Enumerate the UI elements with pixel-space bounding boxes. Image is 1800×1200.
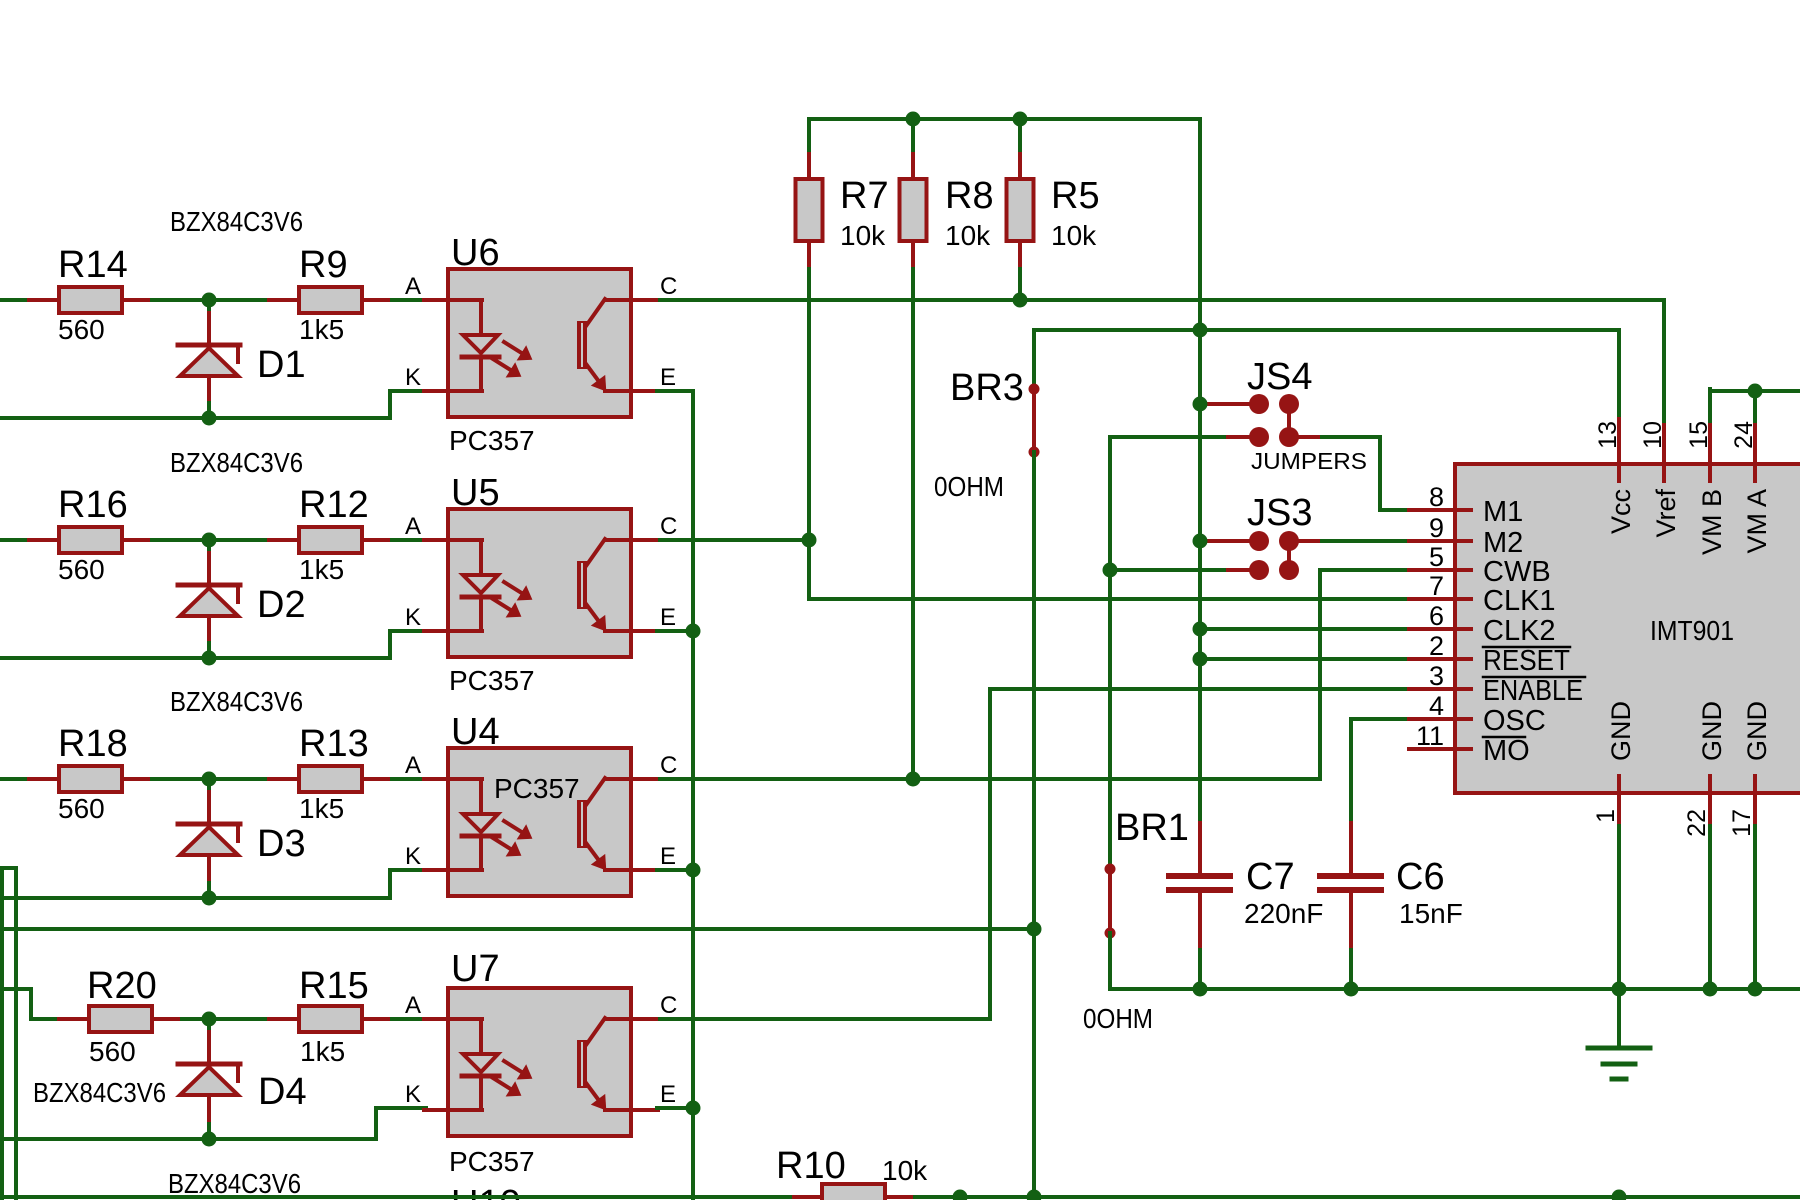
node junction R5 top: [1013, 112, 1028, 127]
pin 9 stub of IMT901: [1409, 539, 1471, 543]
label R9: [299, 244, 348, 286]
svg-text:0OHM: 0OHM: [1083, 1003, 1153, 1034]
wire JS3 top-left stub: [1207, 539, 1252, 543]
label 10k value of R5: [1051, 220, 1097, 251]
svg-text:BZX84C3V6: BZX84C3V6: [170, 206, 303, 237]
wire BR3 bottom: [1032, 452, 1036, 1197]
wire VM row: [1710, 389, 1800, 393]
svg-text:JS3: JS3: [1247, 492, 1312, 534]
wire R7 top: [807, 119, 811, 150]
node junction D2 anode: [202, 533, 217, 548]
svg-text:560: 560: [89, 1036, 136, 1067]
wire CLK2 net: [1200, 627, 1410, 631]
svg-text:PC357: PC357: [449, 425, 535, 456]
svg-text:U5: U5: [451, 472, 500, 514]
label R20: [87, 965, 157, 1007]
pin name CWB: [1483, 556, 1551, 588]
pin number 24 rotated: [1730, 421, 1758, 449]
label 1k5 value of R9: [299, 314, 344, 345]
wire U5 E to node: [657, 629, 693, 633]
jumper JS4 pads: [1249, 394, 1299, 447]
pin number 5: [1429, 542, 1444, 572]
svg-text:R16: R16: [58, 484, 128, 526]
svg-text:C7: C7: [1246, 856, 1295, 898]
pin 3 stub of IMT901: [1409, 687, 1471, 691]
label D3: [257, 823, 306, 865]
resistor R16: [29, 527, 152, 553]
capacitor C7: [1169, 823, 1230, 989]
label C7: [1246, 856, 1295, 898]
svg-text:A: A: [405, 513, 421, 540]
svg-text:220nF: 220nF: [1244, 898, 1323, 929]
svg-text:BZX84C3V6: BZX84C3V6: [170, 447, 303, 478]
wire M1 net b: [1378, 437, 1382, 510]
pin name ENABLE: [1483, 675, 1583, 707]
wire top Vcc rail: [809, 117, 1200, 121]
svg-text:R7: R7: [840, 175, 889, 217]
svg-text:IMT901: IMT901: [1650, 615, 1734, 646]
svg-text:GND: GND: [1742, 701, 1772, 761]
label R16: [58, 484, 128, 526]
label BZX84C3V6 value of D4: [33, 1077, 166, 1108]
wire Vref stub join: [1662, 415, 1666, 421]
label 560 value of R14: [58, 314, 105, 345]
svg-text:15nF: 15nF: [1399, 898, 1463, 929]
node junction JS3 feed: [1193, 534, 1208, 549]
node junction U4 E: [686, 863, 701, 878]
svg-text:MO: MO: [1483, 735, 1530, 767]
pin number 1 rotated: [1592, 809, 1620, 823]
wire GND pin 1 drop: [1617, 826, 1621, 989]
pin name Vref rotated: [1651, 489, 1681, 538]
svg-text:BZX84C3V6: BZX84C3V6: [168, 1168, 301, 1199]
svg-text:R10: R10: [776, 1145, 846, 1187]
label R18: [58, 723, 128, 765]
node junction bottom a: [953, 1190, 968, 1200]
svg-text:560: 560: [58, 793, 105, 824]
wire row1 bottom net: [0, 416, 390, 420]
pin name VM A rotated: [1742, 489, 1772, 554]
optocoupler U6: [424, 269, 664, 417]
node junction D4 anode: [202, 1132, 217, 1147]
wire BR3 top: [1032, 330, 1036, 389]
svg-text:BR3: BR3: [950, 367, 1024, 409]
label BR1: [1115, 807, 1189, 849]
wire emitter bus vertical: [691, 391, 695, 1200]
pin 6 stub of IMT901: [1409, 627, 1471, 631]
svg-text:R12: R12: [299, 484, 369, 526]
wire R13 to U4 A: [392, 777, 426, 781]
bridge BR1 0 ohm: [1105, 864, 1116, 939]
wire U4 C row: [660, 777, 1320, 781]
node junction C7 bottom: [1193, 982, 1208, 997]
svg-text:U6: U6: [451, 232, 500, 274]
wire Vcc column to pin13: [1617, 330, 1621, 421]
resistor R5: [1007, 148, 1034, 272]
wire branch to R20 b: [29, 989, 33, 1019]
label 1k5 value of R15: [300, 1036, 345, 1067]
svg-text:6: 6: [1429, 601, 1444, 631]
svg-text:C: C: [660, 992, 677, 1019]
svg-text:BZX84C3V6: BZX84C3V6: [170, 686, 303, 717]
label PC357 value of U7: [449, 1146, 535, 1177]
pin name M1: [1483, 496, 1523, 528]
pin 5 stub of IMT901: [1409, 568, 1471, 572]
pin name OSC: [1483, 705, 1546, 737]
label 220nF value of C7: [1244, 898, 1323, 929]
svg-text:5: 5: [1429, 542, 1444, 572]
pin number 22 rotated: [1683, 809, 1711, 837]
pin number 2: [1429, 631, 1444, 661]
label BZX84C3V6 value of D1: [170, 206, 303, 237]
node junction BR3 row929: [1027, 922, 1042, 937]
pin number 15 rotated: [1685, 421, 1713, 449]
pin number 7: [1429, 571, 1444, 601]
wire row4 bottom net: [0, 1137, 376, 1141]
wire K3 horizontal: [390, 868, 426, 872]
svg-text:C6: C6: [1396, 856, 1445, 898]
jumper JS3 pads: [1249, 531, 1299, 580]
label 560 value of R20: [89, 1036, 136, 1067]
wire K3 elbow vertical: [388, 870, 392, 898]
svg-text:JS4: JS4: [1247, 356, 1312, 398]
label pin E of U7: [660, 1081, 676, 1108]
wire K4 horizontal: [376, 1106, 426, 1110]
svg-text:C: C: [660, 273, 677, 300]
svg-text:K: K: [405, 843, 421, 870]
svg-text:22: 22: [1683, 809, 1711, 837]
wire left edge vertical A: [0, 868, 4, 1200]
label PC357 value of U4: [494, 773, 580, 804]
svg-text:D1: D1: [257, 344, 306, 386]
pin number 13 rotated: [1594, 421, 1622, 449]
wire M1 net a: [1322, 435, 1380, 439]
wire left edge vertical B: [14, 868, 18, 1200]
wire U6 C net row: [660, 298, 1664, 302]
svg-text:R20: R20: [87, 965, 157, 1007]
label 0OHM value of BR1: [1083, 1003, 1153, 1034]
svg-text:2: 2: [1429, 631, 1444, 661]
wire CWB net: [1320, 568, 1410, 572]
optocoupler U4: [424, 748, 664, 896]
label R10: [776, 1145, 846, 1187]
label D2: [257, 584, 306, 626]
svg-text:1k5: 1k5: [299, 314, 344, 345]
node junction GND pin22: [1703, 982, 1718, 997]
wire U4 E to node: [657, 868, 693, 872]
label pin C of U5: [660, 513, 677, 540]
pin 7 stub of IMT901: [1409, 597, 1471, 601]
svg-text:PC357: PC357: [449, 1146, 535, 1177]
wire K4 elbow vertical: [374, 1108, 378, 1139]
resistor R10: [794, 1184, 915, 1200]
bridge BR3 0 ohm: [1029, 384, 1040, 458]
pin 22 stub of IMT901 bottom: [1708, 776, 1712, 826]
svg-text:VM B: VM B: [1697, 489, 1727, 555]
label JS4: [1247, 356, 1312, 398]
svg-text:10: 10: [1639, 421, 1667, 449]
node junction U5 C with R7: [802, 533, 817, 548]
svg-text:10k: 10k: [840, 220, 886, 251]
wire bottom rail right: [915, 1195, 1800, 1199]
pin 15 stub of IMT901 top: [1708, 419, 1712, 481]
wire R5 bottom: [1018, 269, 1022, 300]
svg-text:U7: U7: [451, 948, 500, 990]
label IMT901 value: [1650, 615, 1734, 646]
label 0OHM value of BR3: [934, 471, 1004, 502]
svg-text:9: 9: [1429, 513, 1444, 543]
label D1: [257, 344, 306, 386]
svg-text:BR1: BR1: [1115, 807, 1189, 849]
wire R5 top: [1018, 119, 1022, 150]
wire K2 horizontal: [390, 629, 426, 633]
wire net after R14: [152, 298, 270, 302]
svg-text:GND: GND: [1697, 701, 1727, 761]
node junction D3 anode: [202, 772, 217, 787]
svg-text:D2: D2: [257, 584, 306, 626]
pin 11 stub of IMT901: [1409, 747, 1471, 751]
node junction U7 E: [686, 1101, 701, 1116]
label R8: [945, 175, 994, 217]
svg-text:OSC: OSC: [1483, 705, 1546, 737]
label 1k5 value of R12: [299, 554, 344, 585]
wire JS3 bottom-left stub: [1228, 568, 1252, 572]
resistor R8: [900, 148, 927, 272]
pin name M2: [1483, 527, 1523, 559]
resistor R20: [59, 1006, 182, 1032]
wire CWB riser: [1318, 570, 1322, 779]
wire left edge top link: [2, 866, 16, 870]
svg-text:R13: R13: [299, 723, 369, 765]
node junction U4 C with R8: [906, 772, 921, 787]
label pin E of U5: [660, 604, 676, 631]
svg-text:560: 560: [58, 554, 105, 585]
wire U6 E to node: [657, 389, 693, 393]
wire M2 net: [1322, 539, 1410, 543]
svg-text:11: 11: [1416, 721, 1444, 751]
optocoupler U5: [424, 509, 664, 657]
label JS3: [1247, 492, 1312, 534]
wire Vref column: [1662, 300, 1666, 421]
label R13: [299, 723, 369, 765]
pin name RESET: [1483, 645, 1570, 677]
zener diode D2: [178, 540, 240, 658]
svg-text:10k: 10k: [945, 220, 991, 251]
wire RESET net: [1200, 657, 1410, 661]
svg-text:24: 24: [1730, 421, 1758, 449]
capacitor C6: [1320, 823, 1381, 989]
svg-text:4: 4: [1429, 691, 1444, 721]
svg-text:R9: R9: [299, 244, 348, 286]
label 1k5 value of R13: [299, 793, 344, 824]
label D4: [258, 1071, 307, 1113]
wire BR1 mid: [1108, 570, 1112, 869]
svg-text:M1: M1: [1483, 496, 1523, 528]
node junction VM A: [1748, 384, 1763, 399]
resistor R14: [29, 287, 152, 313]
pin number 3: [1429, 661, 1444, 691]
pin number 6: [1429, 601, 1444, 631]
wire K1 elbow vertical: [388, 391, 392, 418]
svg-text:BZX84C3V6: BZX84C3V6: [33, 1077, 166, 1108]
pin number 10 rotated: [1639, 421, 1667, 449]
wire GND pin 22 drop: [1708, 826, 1712, 989]
wire net IN3 left segment: [0, 777, 32, 781]
pin name MO: [1483, 735, 1530, 767]
svg-text:560: 560: [58, 314, 105, 345]
svg-text:A: A: [405, 752, 421, 779]
svg-text:D3: D3: [257, 823, 306, 865]
label BZX84C3V6 fifth: [168, 1168, 301, 1199]
pin name Vcc rotated: [1606, 489, 1636, 534]
svg-text:U4: U4: [451, 711, 500, 753]
label 560 value of R18: [58, 793, 105, 824]
svg-text:E: E: [660, 604, 676, 631]
label U5: [451, 472, 500, 514]
wire JS4 bottom-right stub: [1296, 435, 1322, 439]
label pin C of U4: [660, 752, 677, 779]
wire net IN1 left segment: [0, 298, 32, 302]
node junction D4 cathode: [202, 1012, 217, 1027]
node junction C6 bottom: [1344, 982, 1359, 997]
wire after R16: [152, 538, 270, 542]
svg-text:Vcc: Vcc: [1606, 489, 1636, 534]
wire R8 top: [911, 119, 915, 150]
svg-text:VM A: VM A: [1742, 489, 1772, 554]
svg-text:1k5: 1k5: [299, 793, 344, 824]
svg-text:E: E: [660, 1081, 676, 1108]
node junction JS4 feed: [1193, 397, 1208, 412]
overline ENABLE: [1483, 676, 1585, 679]
pin number 9: [1429, 513, 1444, 543]
label U7: [451, 948, 500, 990]
wire ENABLE net: [990, 687, 1410, 691]
svg-text:CLK2: CLK2: [1483, 615, 1556, 647]
label BZX84C3V6 value of D2: [170, 447, 303, 478]
wire row2 bottom net: [0, 656, 390, 660]
svg-text:K: K: [405, 364, 421, 391]
label PC357 value of U6: [449, 425, 535, 456]
label pin E of U6: [660, 364, 676, 391]
wire net IN2 left segment: [0, 538, 32, 542]
svg-text:C: C: [660, 752, 677, 779]
svg-text:E: E: [660, 843, 676, 870]
pin 10 stub of IMT901 top: [1662, 419, 1666, 481]
resistor R18: [29, 766, 152, 792]
label C6: [1396, 856, 1445, 898]
resistor R12: [269, 527, 392, 553]
pin 2 stub of IMT901: [1409, 657, 1471, 661]
label 560 value of R16: [58, 554, 105, 585]
wire Vcc row y330: [1034, 328, 1619, 332]
pin number 4: [1429, 691, 1444, 721]
resistor R9: [269, 287, 392, 313]
svg-text:ENABLE: ENABLE: [1483, 675, 1583, 707]
svg-text:10k: 10k: [1051, 220, 1097, 251]
svg-text:15: 15: [1685, 421, 1713, 449]
wire BR1 bottom: [1108, 933, 1112, 989]
pin name GND rotated: [1697, 701, 1727, 761]
pin number 8: [1429, 482, 1444, 512]
node junction Vcc row: [1193, 323, 1208, 338]
wire K1 horizontal: [390, 389, 426, 393]
label R5: [1051, 175, 1100, 217]
wire JS3 bottom-left segment: [1110, 568, 1228, 572]
svg-text:1: 1: [1592, 809, 1620, 823]
overline MO: [1483, 736, 1525, 739]
pin name CLK2: [1483, 615, 1556, 647]
pin number 17 rotated: [1728, 809, 1756, 837]
label U4: [451, 711, 500, 753]
node junction D1 cathode: [202, 411, 217, 426]
wire OSC net: [1351, 717, 1410, 721]
pin 1 stub of IMT901 bottom: [1617, 776, 1621, 826]
wire CLK1 net: [809, 597, 1410, 601]
label U10 clipped: [451, 1183, 521, 1200]
label U6: [451, 232, 500, 274]
wire branch to R20 c: [31, 1017, 62, 1021]
wire bottom rail left: [0, 1195, 794, 1199]
wire U7 E to node: [657, 1106, 693, 1110]
node junction R8 top: [906, 112, 921, 127]
svg-text:1k5: 1k5: [300, 1036, 345, 1067]
pin name GND rotated: [1606, 701, 1636, 761]
wire row 929: [0, 927, 1034, 931]
ground symbol: [1588, 989, 1650, 1079]
svg-text:1k5: 1k5: [299, 554, 344, 585]
node junction R5 bottom: [1013, 293, 1028, 308]
wire branch to R20 a: [2, 987, 31, 991]
svg-text:D4: D4: [258, 1071, 307, 1113]
svg-text:10k: 10k: [882, 1155, 928, 1186]
label 10k value of R8: [945, 220, 991, 251]
svg-text:C: C: [660, 513, 677, 540]
svg-text:A: A: [405, 273, 421, 300]
label R15: [299, 965, 369, 1007]
wire R9 to U6 A: [392, 298, 426, 302]
label pin K of U5: [405, 604, 421, 631]
svg-text:13: 13: [1594, 421, 1622, 449]
wire after R20: [182, 1017, 270, 1021]
pin name VM B rotated: [1697, 489, 1727, 555]
svg-text:3: 3: [1429, 661, 1444, 691]
node junction GND pin1: [1612, 982, 1627, 997]
node junction RESET tap: [1193, 652, 1208, 667]
label pin K of U4: [405, 843, 421, 870]
resistor R7: [796, 148, 823, 272]
wire VM A riser: [1753, 391, 1757, 421]
node junction CLK2 tap: [1193, 622, 1208, 637]
label R14: [58, 244, 128, 286]
svg-text:R8: R8: [945, 175, 994, 217]
wire U5 C row: [660, 538, 809, 542]
svg-text:CLK1: CLK1: [1483, 585, 1556, 617]
svg-text:M2: M2: [1483, 527, 1523, 559]
svg-text:JUMPERS: JUMPERS: [1251, 448, 1367, 474]
svg-text:E: E: [660, 364, 676, 391]
label R12: [299, 484, 369, 526]
wire BR1 riser top: [1108, 437, 1112, 570]
wire R15 to U7 A: [392, 1017, 426, 1021]
wire after R18: [152, 777, 270, 781]
label BZX84C3V6 value of D3: [170, 686, 303, 717]
svg-text:R15: R15: [299, 965, 369, 1007]
wire VM B riser: [1708, 389, 1712, 421]
node junction D2 cathode: [202, 651, 217, 666]
IC U-IMT901 body: [1455, 464, 1800, 793]
wire R8 bottom: [911, 269, 915, 779]
wire ground rail: [1110, 987, 1800, 991]
